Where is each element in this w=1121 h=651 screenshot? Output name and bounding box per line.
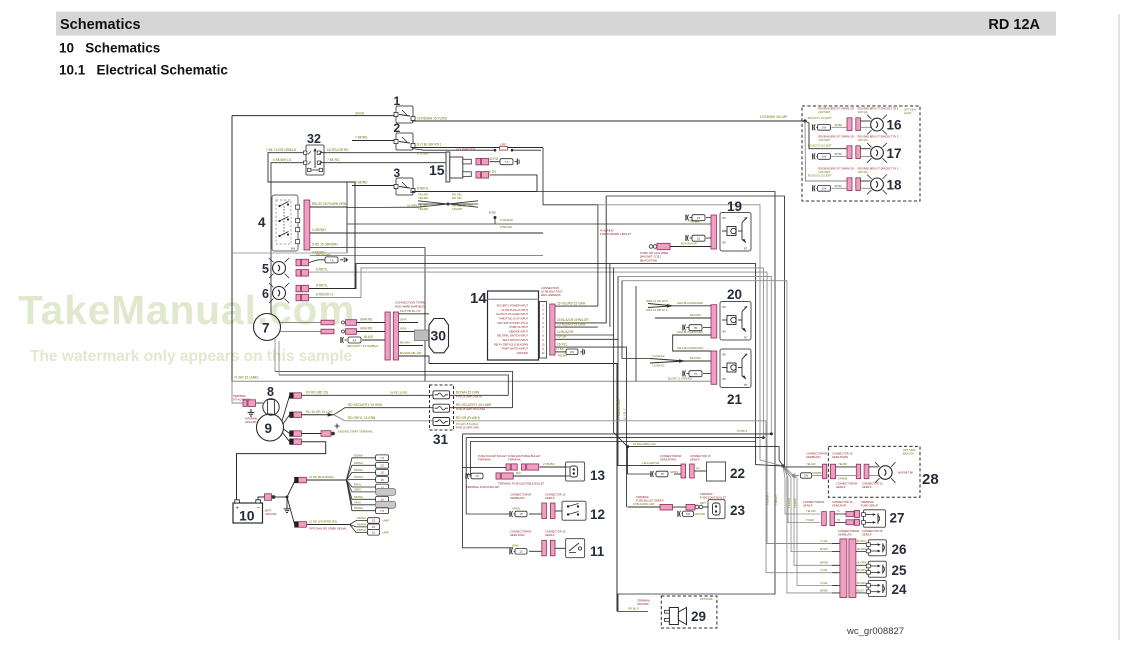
wire switch 3 output: [412, 191, 537, 193]
svg-text:GER/BL/PU: GER/BL/PU: [838, 533, 852, 537]
svg-text:ENG HARNESS: ENG HARNESS: [541, 293, 561, 297]
connector starter terminal 4: [290, 439, 293, 445]
svg-text:RELAY 26 PU/WH GRN: RELAY 26 PU/WH GRN: [312, 202, 347, 206]
svg-text:OPT SIGN: OPT SIGN: [903, 448, 915, 452]
connector bus bar feed: [295, 477, 298, 483]
svg-text:29: 29: [691, 609, 706, 624]
svg-text:20: 20: [727, 287, 742, 302]
wire riser v622 to relay 21 merge: [622, 281, 650, 359]
wire riser to sender 13: [466, 442, 470, 475]
svg-text:BL/GRN: BL/GRN: [857, 582, 866, 585]
wire controller pin 6: [555, 326, 598, 328]
controller 14 pin list: [494, 304, 528, 356]
svg-text:SENDER INPUT: SENDER INPUT: [509, 329, 528, 333]
svg-text:BL/WH: BL/WH: [820, 548, 828, 551]
svg-text:FUSE GER/LP: FUSE GER/LP: [861, 504, 878, 508]
beacon connector pair 2: [856, 464, 860, 479]
svg-text:BLA/WH BL.GR: BLA/WH BL.GR: [400, 351, 422, 355]
switch 1: [396, 106, 413, 123]
svg-text:GLOW PLUG GARD INPUT: GLOW PLUG GARD INPUT: [496, 312, 528, 316]
wire lamp 18: [860, 180, 870, 182]
svg-text:WH/BK: WH/BK: [820, 589, 828, 592]
svg-text:5: 5: [262, 262, 269, 276]
svg-text:YEL/LAMP GR: YEL/LAMP GR: [642, 461, 659, 465]
wire starter feed to lower fan: [307, 524, 350, 526]
svg-text:GRA BLA/GRN/GRN: GRA BLA/GRN/GRN: [677, 346, 703, 350]
svg-text:25: 25: [892, 563, 908, 578]
svg-text:BL/GRN: BL/GRN: [857, 562, 866, 565]
wires valve 27: [835, 513, 846, 515]
connector pair valve 27: [822, 512, 827, 526]
wire beacon mid top: [836, 466, 857, 468]
connector lamp 5 pin 1: [296, 259, 301, 266]
svg-text:4: 4: [258, 215, 266, 230]
svg-text:RD/BK: RD/BK: [835, 124, 843, 127]
lamp 17: [871, 146, 884, 159]
svg-text:FUSE SOCKET BULLET: FUSE SOCKET BULLET: [478, 454, 507, 458]
svg-text:13 YEL/RD 15 GRN: 13 YEL/RD 15 GRN: [557, 322, 586, 326]
connector alternator 8: [243, 400, 247, 407]
connector lamp 6 pin 1: [296, 285, 301, 292]
svg-text:6 BK/WH LG: 6 BK/WH LG: [273, 158, 292, 162]
wire switch 3 input: [352, 185, 394, 187]
svg-text:TERMINAL: TERMINAL: [637, 599, 651, 603]
svg-text:8 LT BL/GR RD 1: 8 LT BL/GR RD 1: [417, 143, 442, 147]
svg-text:1W: 1W: [570, 350, 575, 354]
svg-text:18: 18: [887, 177, 903, 192]
svg-text:86: 86: [723, 353, 727, 357]
svg-text:15: 15: [372, 525, 376, 529]
svg-text:GROUND: GROUND: [245, 420, 257, 424]
relay 21: [720, 349, 751, 388]
svg-text:30: 30: [744, 305, 748, 309]
wire controller pin 5: [555, 196, 606, 323]
splice gauge 7 pin 1: [321, 320, 334, 325]
wire relay 32 left pin 2: [271, 163, 304, 314]
svg-text:YEL/RD: YEL/RD: [418, 196, 428, 200]
wire merge into relay 21: [650, 359, 685, 364]
indicator lamp 5: [273, 262, 286, 275]
lamp 18: [871, 178, 884, 191]
connector buzzer 23: [660, 504, 673, 510]
svg-text:RD SIG/TL 15 LIGHT: RD SIG/TL 15 LIGHT: [808, 117, 832, 120]
wire gauge 7 pin 1: [281, 322, 322, 324]
svg-text:GER/BL/WH: GER/BL/WH: [510, 496, 525, 500]
svg-text:15: 15: [372, 531, 376, 535]
svg-text:Schematics: Schematics: [60, 17, 141, 33]
svg-text:CONNECTOR/GR: CONNECTOR/GR: [836, 482, 857, 486]
svg-text:24: 24: [892, 582, 908, 597]
wire to lamp 17: [805, 121, 847, 149]
svg-text:GRA RD: GRA RD: [360, 318, 373, 322]
svg-text:YL/GR E2: YL/GR E2: [652, 354, 665, 358]
svg-text:BLA/WH: BLA/WH: [690, 356, 701, 360]
wire h205 to right corner: [598, 205, 783, 466]
wire battery negative: [258, 497, 265, 500]
junction node below: [494, 216, 497, 219]
wire pump coil to relay 19: [670, 246, 711, 248]
svg-text:15: 15: [380, 464, 384, 468]
controller 14 connector bar: [550, 304, 555, 355]
svg-text:GRN/BK: GRN/BK: [838, 478, 848, 481]
wire lamp 16: [860, 120, 870, 122]
svg-text:GRAY: GRAY: [354, 487, 361, 491]
fuse buzzer 23: [677, 511, 679, 517]
svg-text:RD GR/YL 15 GRN: RD GR/YL 15 GRN: [348, 416, 376, 420]
splice gauge 7 pin 2: [321, 329, 334, 334]
svg-text:RD/BK: RD/BK: [835, 153, 843, 156]
fuse relay 19 pin 30: [685, 215, 687, 221]
wire nested frame row B: [466, 437, 763, 439]
wire module 4 feed to relay 19: [346, 182, 348, 253]
wire u-turn fuse row 2: [275, 372, 513, 408]
svg-text:CONNECTION: CONNECTION: [541, 286, 559, 290]
svg-text:31: 31: [433, 432, 449, 447]
connector starter feed: [295, 522, 298, 528]
svg-text:TERMINAL: TERMINAL: [861, 500, 875, 504]
svg-text:INTERNAL: INTERNAL: [245, 417, 258, 421]
wire gauge 7 pin 2: [281, 331, 322, 333]
wire lamp 5 pin 2 bus: [309, 272, 839, 543]
svg-text:28: 28: [922, 471, 939, 488]
wire relay 32 left pin 1: [268, 153, 355, 182]
svg-text:32: 32: [307, 132, 321, 146]
wire controller pin 8: [555, 338, 618, 340]
svg-text:8: 8: [267, 385, 274, 399]
svg-text:4 GR/WH: 4 GR/WH: [312, 228, 326, 232]
connector bar relay 21: [711, 351, 717, 384]
wires valves right side: [856, 543, 866, 545]
wire nested bus h5: [622, 281, 839, 593]
battery 10: [233, 503, 263, 523]
buzzer 23: [708, 500, 725, 519]
wire switch 2 input: [352, 140, 394, 142]
wire bus bar feed to fuse fan: [307, 479, 347, 481]
wire relay 20 to relay 21: [673, 335, 711, 351]
lamp group dashed box: [802, 106, 920, 201]
svg-text:BL/GY: BL/GY: [857, 589, 864, 592]
svg-text:30: 30: [431, 328, 447, 344]
svg-text:27: 27: [890, 511, 905, 526]
svg-text:PU 15 GR 15 LGR: PU 15 GR 15 LGR: [306, 410, 333, 414]
svg-text:LAMP: LAMP: [382, 530, 389, 534]
svg-text:85: 85: [723, 377, 727, 381]
svg-text:15: 15: [380, 478, 384, 482]
fuse block 31: [430, 385, 454, 430]
wire lamp 6 pin 1 to bus: [309, 264, 783, 466]
svg-text:BLA/WH: BLA/WH: [690, 313, 701, 317]
wire controller pin 12 to fuse: [555, 351, 566, 353]
svg-text:10.1 Electrical Schematic: 10.1 Electrical Schematic: [59, 63, 228, 78]
svg-text:12W SIG: 12W SIG: [858, 171, 868, 174]
svg-text:GRN 13 GR LP.S: GRN 13 GR LP.S: [646, 299, 668, 303]
svg-text:PUR 15 GRP 15 FLASH: PUR 15 GRP 15 FLASH: [456, 407, 485, 411]
svg-text:10 Schematics: 10 Schematics: [59, 41, 160, 56]
svg-text:GER/LP: GER/LP: [690, 458, 700, 462]
svg-text:GROUND: GROUND: [265, 512, 277, 516]
beacon connector pair 1: [822, 464, 826, 479]
svg-text:OPTIONAL RD GR/BK SIGNAL: OPTIONAL RD GR/BK SIGNAL: [309, 526, 347, 530]
arrow and fuse beacon: [792, 473, 799, 477]
svg-text:30: 30: [744, 353, 748, 357]
connector lamp 5 pin 2: [296, 270, 301, 277]
svg-text:5 BK/GR: 5 BK/GR: [500, 225, 513, 229]
svg-text:The watermark only appears on: The watermark only appears on this sampl…: [30, 348, 353, 365]
wires valves left labels: [832, 543, 840, 545]
svg-text:GER/LP: GER/LP: [545, 496, 555, 500]
svg-text:RD SECURITY 15 LAMP: RD SECURITY 15 LAMP: [456, 403, 492, 407]
valve 27: [864, 510, 886, 528]
svg-text:MAX SWITCH [KEY 15 FL]: MAX SWITCH [KEY 15 FL]: [497, 321, 528, 325]
svg-text:87: 87: [744, 383, 748, 387]
wire main feed left frame: [231, 116, 233, 382]
svg-text:YEL/BK: YEL/BK: [793, 498, 797, 508]
wire fan to valve 27 bottom: [783, 466, 821, 523]
svg-text:1W: 1W: [686, 512, 691, 516]
relay 20: [720, 302, 751, 341]
svg-text:12 RD (BUS BARS): 12 RD (BUS BARS): [309, 475, 334, 479]
svg-text:wc_gr008827: wc_gr008827: [846, 626, 904, 637]
wire lamp 6 pin 2 to bus: [309, 268, 763, 438]
wire branch to sender 13 top: [463, 466, 507, 468]
connector bar relay 20: [711, 305, 717, 338]
lamp 18 connector pair: [847, 178, 852, 191]
svg-text:SEAT SWITCH INPUT: SEAT SWITCH INPUT: [502, 338, 528, 342]
svg-text:BLK: BLK: [516, 471, 521, 475]
wire fan to valve 26 bottom: [783, 466, 839, 552]
wire harness gra 1: [399, 322, 419, 324]
indicator lamp 6: [273, 287, 286, 300]
svg-text:GROUND: GROUND: [637, 602, 649, 606]
valve 25: [868, 561, 886, 577]
wire battery ground branch: [275, 496, 287, 498]
wire merge into relay 20: [648, 304, 673, 308]
wire relay 20 black: [655, 317, 711, 319]
svg-text:RD YEL: RD YEL: [452, 196, 462, 200]
svg-text:4A: 4A: [353, 338, 357, 342]
svg-text:CONNECTOR 15: CONNECTOR 15: [862, 482, 883, 486]
svg-text:26: 26: [892, 542, 908, 557]
svg-text:30 RD: 30 RD: [489, 157, 499, 161]
wire lamp 17: [860, 148, 870, 150]
svg-text:17 BK: 17 BK: [556, 347, 564, 351]
switch module 4: [272, 195, 298, 251]
wire from relay 32 vertical: [354, 182, 356, 289]
svg-text:CONNECTOR/GR: CONNECTOR/GR: [660, 454, 681, 458]
svg-text:12W SIG: 12W SIG: [858, 139, 868, 142]
svg-text:GER/BL/WH: GER/BL/WH: [806, 455, 821, 459]
svg-text:RD/GRAD BR/GY/T SPARK GR: RD/GRAD BR/GY/T SPARK GR: [818, 108, 854, 111]
svg-text:RD/GRAD BR/GY/T SPARK GR: RD/GRAD BR/GY/T SPARK GR: [818, 168, 854, 171]
svg-text:RD/WH: RD/WH: [354, 468, 363, 472]
svg-text:BATT: BATT: [265, 509, 272, 513]
valve 26: [868, 540, 886, 556]
wire u-turn fuse row 1: [279, 375, 508, 395]
svg-text:5 TN: 5 TN: [489, 170, 497, 174]
wire to lamp 18: [805, 121, 847, 181]
switch 12: [562, 501, 586, 520]
svg-text:RD/GRAD BR/GY/T SPACE/LT TN 5: RD/GRAD BR/GY/T SPACE/LT TN 5: [858, 136, 899, 139]
horn 29: [669, 608, 678, 625]
connector pair switch 11: [542, 540, 547, 556]
wire junction to beacon: [783, 466, 822, 468]
svg-text:RD SIG/TL 15 LIGHT: RD SIG/TL 15 LIGHT: [808, 174, 832, 177]
svg-text:YL/GR: YL/GR: [820, 582, 827, 585]
svg-text:TERMINAL: TERMINAL: [478, 458, 492, 462]
svg-text:FUSE BULLET GER/LP: FUSE BULLET GER/LP: [636, 499, 664, 503]
wire riser to switch 12: [466, 438, 510, 514]
switch 2: [396, 133, 413, 150]
wire nested bus h4: [618, 276, 771, 434]
svg-text:PUMP OUTPUT: PUMP OUTPUT: [510, 325, 529, 329]
svg-text:19 GR: 19 GR: [557, 335, 567, 339]
svg-text:GER/LP: GER/LP: [803, 504, 813, 508]
svg-text:BLA/S: BLA/S: [364, 335, 373, 339]
svg-text:19: 19: [727, 199, 742, 214]
fuse fan lower: [350, 516, 390, 535]
beacon 28 dashed box: [828, 446, 920, 497]
svg-text:14: 14: [470, 290, 487, 307]
svg-text:RD/WH 15 GRN: RD/WH 15 GRN: [456, 391, 480, 395]
connector pair hourmeter pin 1: [476, 158, 481, 165]
valve 24: [868, 581, 886, 597]
svg-text:RD BL.P: RD BL.P: [628, 607, 639, 611]
svg-text:FOR TOWARD CIRCUIT: FOR TOWARD CIRCUIT: [600, 232, 631, 236]
svg-text:15: 15: [372, 519, 376, 523]
svg-text:GER/LP: GER/LP: [836, 485, 846, 489]
svg-text:TERMINAL: TERMINAL: [636, 495, 650, 499]
switch 11: [566, 539, 585, 558]
wire module 4 pin C: [310, 248, 425, 382]
svg-text:CONNECTOR 15: CONNECTOR 15: [832, 500, 853, 504]
wire riser to horn relay 11: [463, 434, 514, 548]
connector gauge 7 pin 2: [342, 330, 345, 333]
svg-text:RD/GRAD BR/GY/T SPARK GR: RD/GRAD BR/GY/T SPARK GR: [818, 136, 854, 139]
svg-text:10: 10: [239, 508, 255, 524]
wire long bus under controller to horn: [429, 364, 617, 612]
fuse flasher 22: [650, 471, 652, 477]
svg-text:[BLACK/TAN]: [BLACK/TAN]: [640, 258, 657, 262]
svg-text:CONNECTOR 15: CONNECTOR 15: [862, 529, 883, 533]
svg-text:GROUND: GROUND: [695, 513, 706, 516]
junction node X: [447, 203, 450, 206]
svg-text:CONNECTOR 15: CONNECTOR 15: [545, 492, 566, 496]
svg-text:1W: 1W: [804, 474, 809, 478]
svg-text:RD 12A: RD 12A: [988, 17, 1040, 33]
fuse relay 19 pin 86: [685, 235, 687, 241]
svg-text:YEL/BK: YEL/BK: [838, 462, 847, 466]
wire split upper to fuse 31 row 2: [334, 408, 433, 415]
svg-text:11: 11: [590, 544, 605, 559]
svg-text:ENGINE START TERMINAL: ENGINE START TERMINAL: [338, 429, 374, 433]
flasher unit 22: [707, 462, 726, 481]
svg-text:HOURMETER: HOURMETER: [456, 148, 476, 152]
wire top feed to switch 1: [232, 115, 394, 117]
svg-text:87: 87: [744, 336, 748, 340]
svg-text:15: 15: [475, 474, 479, 478]
connector pump coil: [649, 245, 653, 249]
svg-text:YEL/RD: YEL/RD: [418, 207, 428, 211]
svg-text:8 RD/YL: 8 RD/YL: [417, 187, 429, 191]
svg-text:15 BLA/GRN LGR: 15 BLA/GRN LGR: [633, 442, 656, 446]
svg-text:RD/GRAD BR/GY/T SPACE/LT TN 5: RD/GRAD BR/GY/T SPACE/LT TN 5: [858, 108, 899, 111]
svg-text:BL/GRN: BL/GRN: [857, 569, 866, 572]
svg-text:10 RD/WH 15 LMP: 10 RD/WH 15 LMP: [760, 115, 787, 119]
wire switch 1 output to lamps: [412, 120, 805, 122]
svg-text:GRA: GRA: [400, 318, 407, 322]
wire harness bk/wh: [399, 345, 424, 347]
splice node on switch 2 branch: [494, 149, 497, 152]
link to starter 30: [415, 330, 430, 341]
svg-text:5 WH/GR: 5 WH/GR: [500, 218, 514, 222]
lamp 17 fuse: [812, 153, 814, 159]
battery plus pole symbol: [336, 424, 338, 429]
svg-text:RD/WH: RD/WH: [354, 506, 363, 510]
junction lamps feed: [803, 119, 806, 122]
svg-text:10 RD/WH 15 YL/RD: 10 RD/WH 15 YL/RD: [417, 116, 448, 120]
svg-text:GER/LP: GER/LP: [862, 485, 872, 489]
fuse fan upper: [346, 453, 395, 513]
wire long bus to right side: [537, 192, 775, 612]
svg-text:GER/LP/GRN: GER/LP/GRN: [832, 455, 848, 459]
svg-text:SECURITY 15 GR/BLA: SECURITY 15 GR/BLA: [347, 344, 378, 348]
wire starter engine terminal: [302, 433, 322, 435]
wire beacon mid bottom: [836, 475, 857, 477]
svg-text:YL.GR: YL.GR: [820, 540, 827, 543]
lamp 16: [871, 118, 884, 131]
svg-text:RD SECURITY 15 GRN: RD SECURITY 15 GRN: [348, 403, 383, 407]
fuse controller ground: [566, 349, 578, 355]
svg-text:3: 3: [394, 166, 401, 180]
svg-text:15: 15: [380, 471, 384, 475]
svg-text:30 RD: 30 RD: [355, 112, 365, 116]
fuse relay 20: [682, 325, 684, 331]
svg-text:ATTACHMENT: ATTACHMENT: [233, 397, 251, 401]
svg-text:12W SIG: 12W SIG: [858, 111, 868, 114]
svg-text:WH/S: WH/S: [512, 544, 519, 548]
svg-text:7 BK YL/GR GRN/LA: 7 BK YL/GR GRN/LA: [266, 148, 297, 152]
wire starter to battery: [237, 442, 326, 500]
wire riser v543: [542, 148, 544, 205]
svg-text:LT BL/BN: LT BL/BN: [543, 462, 554, 466]
svg-text:PU GR 15 FLASH: PU GR 15 FLASH: [456, 422, 478, 426]
svg-text:CONNECTOR/GR: CONNECTOR/GR: [803, 500, 824, 504]
svg-text:16: 16: [887, 118, 903, 133]
svg-text:16 YEL: 16 YEL: [557, 342, 568, 346]
lamp 17 connector pair: [847, 146, 852, 159]
svg-text:BL/WH Y: BL/WH Y: [857, 540, 867, 543]
svg-text:8 RD/YL: 8 RD/YL: [316, 267, 328, 271]
svg-text:16 YEL/RD 15 GRA: 16 YEL/RD 15 GRA: [557, 301, 586, 305]
svg-text:12W SWIT: 12W SWIT: [818, 111, 831, 114]
svg-text:PUMP SWITCH INPUT: PUMP SWITCH INPUT: [502, 347, 529, 351]
wire to engine connector pin 1: [357, 322, 386, 324]
svg-text:RD/WH: RD/WH: [357, 522, 366, 526]
svg-text:BL/GR 13 GRN/RD: BL/GR 13 GRN/RD: [668, 377, 692, 381]
svg-text:GRA: GRA: [400, 327, 407, 331]
svg-text:GER/LP/GR: GER/LP/GR: [832, 504, 846, 508]
svg-text:6: 6: [262, 287, 269, 301]
wire hourmeter pin 2: [490, 175, 538, 192]
svg-text:CONNECTOR/GR: CONNECTOR/GR: [510, 492, 531, 496]
connector bar relay 19: [711, 215, 717, 249]
svg-text:5 RD 15 GRN/WH: 5 RD 15 GRN/WH: [312, 243, 339, 247]
horn 29 dashed box: [661, 596, 717, 628]
wire module 4 pin B: [310, 232, 543, 234]
switch 3: [396, 178, 413, 195]
svg-text:CONNECTOR/GR: CONNECTOR/GR: [838, 529, 859, 533]
fuse switch 11: [509, 548, 511, 554]
